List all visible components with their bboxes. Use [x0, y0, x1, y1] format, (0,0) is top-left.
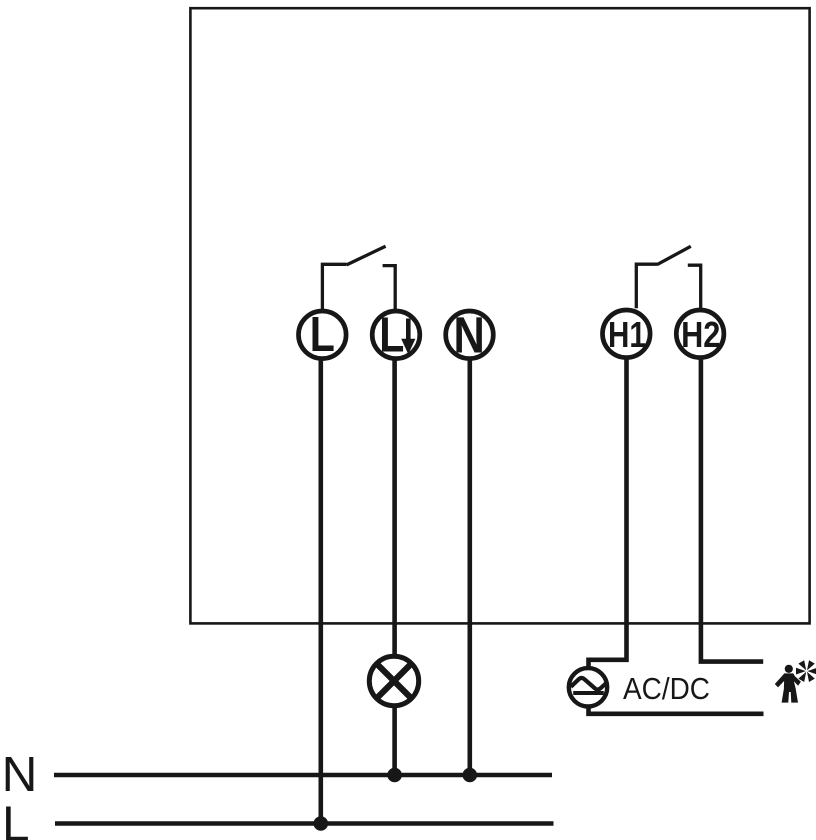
wire: L terminal down to L bus — [318, 359, 323, 824]
svg-text:H1: H1 — [608, 315, 646, 356]
svg-text:N: N — [2, 747, 38, 802]
N bus line — [54, 773, 552, 778]
terminal N — [446, 307, 494, 364]
terminal H2 — [676, 310, 724, 358]
svg-text:L: L — [310, 306, 335, 361]
wire: H2 terminal down and right — [701, 358, 763, 662]
AC/DC power supply U1 — [569, 668, 607, 706]
svg-text:N: N — [454, 307, 485, 364]
installer person icon — [775, 665, 801, 703]
label AC/DC — [623, 671, 710, 706]
junction: lamp wire on N bus — [387, 768, 402, 783]
label L (bus) — [2, 796, 30, 840]
device box — [190, 8, 809, 623]
terminal L — [299, 306, 347, 361]
junction: L wire on L bus — [314, 816, 329, 831]
svg-text:H2: H2 — [681, 315, 720, 356]
asterisk note mark — [796, 660, 816, 682]
junction: N wire on N bus — [463, 768, 478, 783]
L bus line — [55, 821, 554, 826]
lamp E1 — [369, 656, 418, 705]
label N (bus) — [2, 747, 38, 802]
switch contact S2 (between H1 and H2) — [636, 246, 700, 308]
wire: N terminal down to N bus — [467, 359, 472, 776]
wire: H1 terminal down and left to AC/DC supply — [589, 358, 627, 668]
svg-text:AC/DC: AC/DC — [623, 671, 710, 706]
terminal H1 — [603, 310, 651, 358]
wire: AC/DC supply output to the right — [589, 708, 764, 714]
svg-text:L: L — [379, 307, 404, 362]
svg-text:L: L — [2, 796, 30, 840]
terminal L-switched (L with down arrow) — [372, 307, 420, 362]
wire: L-switched terminal down to lamp — [392, 359, 397, 657]
switch contact S1 (between L and L-arrow) — [322, 246, 395, 309]
wire: lamp down to N bus — [392, 706, 397, 775]
